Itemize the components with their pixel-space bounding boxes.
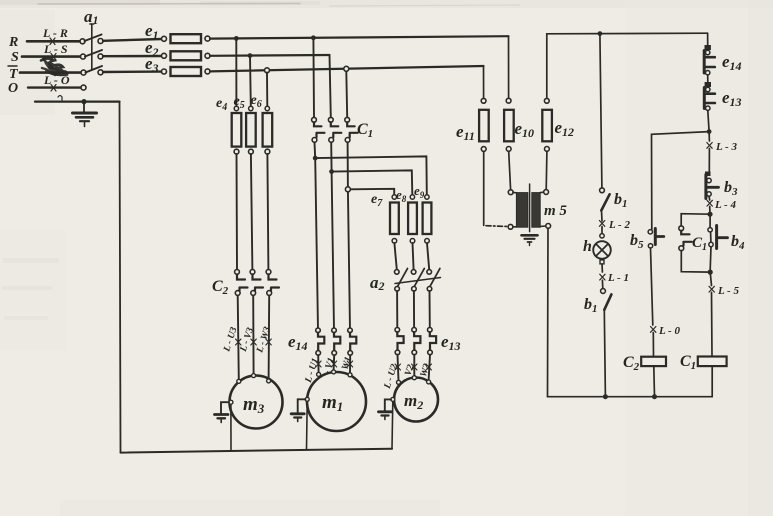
wire C2 to m3 terminal 2 (252, 295, 254, 377)
contact b5 (648, 230, 652, 234)
junction row3 to C1 pole3 (344, 66, 349, 71)
contactor C1 pole 1 (312, 117, 317, 122)
wire e8 down to a2 (413, 243, 414, 270)
node O end circle (81, 85, 86, 90)
wire C2 to m3 terminal 3 (268, 295, 271, 379)
node L-2 (601, 211, 604, 221)
switch b1 lower (601, 289, 606, 294)
switch a2 pole 3 (427, 270, 432, 275)
wire b1 lower down to control rail (604, 310, 605, 397)
wire C1 aux down to junction (681, 251, 710, 273)
wire e6 down to C2 (267, 154, 268, 270)
fuse e5 (249, 106, 253, 110)
svg-text:T: T (9, 67, 19, 82)
transformer m5 core (529, 184, 531, 232)
wire branch to b5 column (652, 132, 710, 230)
wire m5 secondary down to control rail (547, 228, 550, 397)
wire S row to fuse e2 (103, 55, 162, 58)
lamp h (600, 234, 604, 238)
wire e13 to m2 terminal 3 (429, 355, 430, 381)
fuse e7 (392, 195, 396, 199)
wire C1 pole3 down to m1 (348, 142, 350, 330)
overload e13 element 1 (395, 328, 400, 333)
motor m2 (394, 378, 438, 422)
wire e13 down to junction (708, 110, 709, 131)
svg-text:h: h (583, 238, 592, 255)
motor m2 ground terminal (391, 397, 395, 401)
wire b1 column from top (600, 34, 602, 188)
wire branch pole3 to e7 (350, 189, 394, 194)
wire m2 frame to bottom rail (391, 402, 394, 449)
wire e5 down to C2 (251, 154, 253, 270)
fuse e10 (506, 98, 511, 103)
wire e14 to m1 terminal 1 (317, 355, 319, 372)
wire T row to fuse e3 (103, 70, 162, 73)
wire row1 down to C1 pole1 (312, 38, 315, 118)
wire e14 to m1 terminal 2 (333, 355, 336, 370)
wire C1 pole1 down to m1 (315, 142, 319, 330)
switch a1 shaft (91, 24, 93, 70)
scribble over L-T label (41, 59, 67, 75)
junction parallel bottom (708, 270, 713, 275)
junction row1 to e4 (234, 36, 239, 41)
junction rail C2 (652, 394, 657, 399)
contactor C1 pole 3 (345, 117, 350, 122)
ground symbol (main earth) (83, 103, 85, 112)
fuse e4 (234, 106, 238, 110)
svg-text:L - 2: L - 2 (608, 219, 630, 231)
fuse e8 (410, 195, 414, 199)
small mark n (58, 96, 62, 101)
wire branch pole1 to e9 (315, 156, 427, 194)
svg-text:L - 3: L - 3 (715, 141, 737, 153)
wire R row to fuse e1 (103, 39, 162, 41)
fuse e6 (265, 106, 269, 110)
ground symbol m2 (379, 410, 392, 413)
wire e9 down to a2 (427, 243, 429, 270)
wire ground bus down to bottom rail (120, 102, 121, 453)
aux contact C1 (679, 226, 684, 231)
overload e14 element 2 (332, 328, 337, 333)
ground symbol m1 (291, 412, 304, 415)
junction row3 to e6 (265, 68, 270, 73)
wire branch to C1 aux (681, 214, 710, 226)
overload e13 element 2 (412, 328, 417, 333)
switch b1 upper (600, 188, 605, 193)
wire e14 to m1 terminal 3 (349, 355, 351, 373)
contactor C2 pole 1 (235, 270, 240, 275)
junction control top to b1 (598, 31, 603, 36)
junction b5 branch tap (707, 129, 712, 134)
contactor C2 pole 3 (266, 270, 271, 275)
wire e10 down to transformer primary (509, 151, 511, 190)
motor m1 ground terminal (305, 397, 309, 401)
node L-0 (651, 327, 656, 333)
wire ground bus horizontal (35, 100, 120, 102)
wire e4 down to C2 (236, 154, 239, 270)
motor m3 ground terminal (229, 400, 233, 404)
junction row2 to e5 (248, 53, 253, 58)
fuse e12 (544, 98, 549, 103)
wire row1 down to e4 (235, 38, 237, 106)
wire control top feed from e12 (547, 33, 708, 98)
wire e12 down to transformer secondary (545, 151, 548, 189)
svg-text:m 5: m 5 (544, 203, 567, 219)
wire m2 ground elbow (385, 399, 391, 410)
wire e13 to m2 terminal 2 (413, 355, 415, 378)
junction parallel top (707, 212, 712, 217)
junction pole3 branch (345, 187, 350, 192)
svg-text:L - S: L - S (43, 42, 68, 56)
wire e14/e13 column from top (707, 33, 709, 45)
overload e13 element 3 (428, 328, 433, 333)
transformer m5 secondary winding (544, 190, 549, 195)
wire row1 after e1 (210, 36, 509, 38)
wire coil C2 down to rail (653, 366, 656, 397)
ground symbol m3 (215, 413, 229, 416)
wire row2 after e2 (210, 54, 330, 57)
svg-text:R: R (8, 35, 18, 50)
motor m3 (230, 376, 283, 429)
junction rail b1 (603, 394, 608, 399)
overload e14 element 3 (348, 328, 353, 333)
wire m1 frame to bottom rail (306, 401, 309, 449)
wire e13 to m2 terminal 1 (398, 355, 399, 381)
thermal contact e14 (control) (705, 45, 711, 50)
node L-5 (710, 272, 711, 285)
wire b5 down to L-0 (651, 248, 653, 325)
wire row3 corner down to e11 (483, 66, 485, 98)
wire row3 after e3 (210, 66, 484, 71)
wire e14 to e13 (707, 75, 709, 82)
ground symbol m5 (522, 234, 538, 237)
switch a2 pole 1 (395, 270, 400, 275)
wire row1 corner down to e10 (508, 36, 510, 98)
thermal contact e13 (control) (705, 82, 711, 87)
wire L-5 down to coil C1 (711, 292, 714, 356)
push button b4 (708, 228, 712, 232)
transformer m5 primary winding (508, 190, 513, 195)
svg-text:L - O: L - O (43, 73, 70, 87)
wire m3 ground elbow (221, 402, 229, 413)
wire control bottom rail (548, 396, 713, 398)
svg-text:L - R: L - R (42, 26, 68, 40)
wire row2 down to e5 (249, 56, 252, 106)
svg-text:L - 4: L - 4 (714, 199, 736, 211)
wire C2 to m3 terminal 1 (238, 295, 239, 379)
wire row2 down to C1 pole2 (330, 55, 331, 117)
wire row3 down to C1 pole3 (345, 71, 348, 117)
switch a1 pole R (80, 39, 85, 44)
contactor C1 pole 2 (328, 117, 333, 122)
wire phase S (22, 55, 81, 58)
node L-3 (708, 132, 710, 141)
wire row3 down to e6 (266, 73, 268, 107)
node L-1 (601, 264, 603, 272)
push button b3 (705, 172, 711, 177)
switch a2 link bar (395, 278, 441, 284)
wire phase O (neutral) (28, 86, 81, 88)
wire a2 pole1 down to e13 (396, 291, 398, 327)
wire m3 frame to bottom rail (230, 404, 232, 451)
wire e7 down to a2 (394, 243, 396, 270)
wire phase T (20, 71, 81, 74)
wire C1 pole2 down to m1 (331, 142, 334, 330)
wire m1 ground elbow (298, 399, 306, 412)
wire e11 down then dash-dot to transformer (483, 151, 485, 225)
node L-4 (708, 196, 711, 200)
junction pole2 branch (329, 169, 334, 174)
svg-text:L - 1: L - 1 (607, 272, 629, 284)
wire phase R (27, 40, 80, 43)
junction pole1 branch (313, 156, 318, 161)
wire bottom ground rail (121, 449, 393, 453)
svg-text:L - 5: L - 5 (717, 285, 739, 297)
fuse e9 (425, 195, 429, 199)
overload e14 element 1 (316, 328, 321, 333)
wire coil C1 down to rail (711, 366, 713, 397)
wire a2 pole3 down to e13 (429, 291, 431, 327)
svg-text:L - 0: L - 0 (658, 325, 680, 337)
switch a2 pole 2 (411, 270, 416, 275)
svg-text:O: O (8, 81, 18, 96)
svg-text:S: S (11, 50, 19, 65)
fuse e11 (481, 98, 486, 103)
junction ground bus (81, 99, 86, 104)
motor m1 (307, 372, 366, 431)
wire branch pole2 to e8 (332, 170, 413, 194)
switch a1 pole T (81, 70, 86, 75)
wire a2 pole2 down to e13 (413, 291, 415, 327)
contactor C2 pole 2 (250, 270, 255, 275)
junction row1 to C1 pole1 (311, 35, 316, 40)
switch a1 pole S (81, 54, 86, 59)
